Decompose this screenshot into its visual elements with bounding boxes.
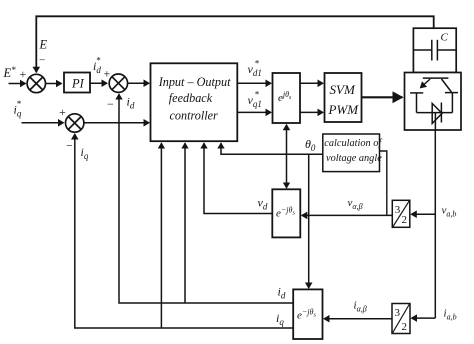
svg-text:+: + xyxy=(20,67,27,81)
svg-text:+: + xyxy=(59,105,66,119)
wire v32 to e-jt voltage xyxy=(302,214,393,216)
wire vab branch to angle calculation xyxy=(380,151,387,215)
svg-text:Input – Output: Input – Output xyxy=(158,75,231,89)
svg-text:−: − xyxy=(39,55,45,67)
wire theta down to e-jt voltage xyxy=(286,154,288,188)
transistor Q2 (right switch) xyxy=(442,79,459,113)
block 3/2 current xyxy=(392,304,410,334)
wire converter bottom rail xyxy=(417,112,453,114)
summer S3 xyxy=(66,114,84,132)
wire E feedback from DC-link top to summer S1 xyxy=(36,16,433,72)
wire id to controller xyxy=(184,143,186,303)
wire converter output down to measurement taps xyxy=(434,130,436,318)
wire id feedback xyxy=(119,94,293,303)
transistor Q1 (left switch) xyxy=(410,79,430,113)
wire iab tap to 3/2 xyxy=(412,317,436,319)
svg-text:2: 2 xyxy=(402,214,408,226)
block 3/2 voltage xyxy=(392,200,410,227)
block e^-jts voltage rotation xyxy=(272,189,300,237)
wire ejt to SVM (top) xyxy=(300,82,323,84)
svg-text:iq*: iq* xyxy=(14,99,22,119)
block SVM PWM xyxy=(325,73,362,122)
capacitor C1 (plates and leads) xyxy=(413,40,456,61)
wire E* input xyxy=(9,83,26,85)
block e^jts rotation xyxy=(273,73,301,123)
wire i32 to e-jt current xyxy=(324,318,392,320)
wire SVM to converter (thick) xyxy=(362,96,403,98)
summer S1 xyxy=(27,74,45,92)
svg-text:2: 2 xyxy=(402,321,408,333)
DC-link capacitor block box xyxy=(413,28,456,72)
svg-text:calculation of: calculation of xyxy=(324,138,383,149)
block PI xyxy=(64,73,90,93)
svg-text:3: 3 xyxy=(395,204,401,216)
wire controller to ejt (vd1) xyxy=(237,82,271,84)
wire S3 to controller xyxy=(84,122,149,124)
block Input-Output feedback controller xyxy=(151,63,238,141)
svg-text:PI: PI xyxy=(71,77,85,91)
wire converter output stub xyxy=(434,113,436,130)
svg-text:feedback: feedback xyxy=(169,91,213,105)
svg-text:+: + xyxy=(104,67,111,81)
wire PI to S2 xyxy=(90,82,107,84)
svg-text:C: C xyxy=(441,32,449,44)
PWM converter block box xyxy=(405,73,462,131)
wire vab tap to 3/2 xyxy=(411,213,435,215)
wire controller to ejt (vq1) xyxy=(237,111,271,113)
wire theta up to ejt xyxy=(286,125,288,155)
svg-text:controller: controller xyxy=(170,109,219,123)
diode D1 xyxy=(432,103,442,124)
wire iq* input xyxy=(22,122,64,124)
wire ejt to SVM (bottom) xyxy=(300,111,323,113)
summer S2 xyxy=(109,74,127,92)
wire theta to controller xyxy=(221,143,323,154)
svg-text:voltage angle: voltage angle xyxy=(326,153,382,164)
wire theta down to e-jt current xyxy=(308,154,310,288)
block e^-jts current rotation xyxy=(293,289,322,339)
wire S1 to PI xyxy=(46,83,62,85)
wire vd to controller xyxy=(204,143,272,213)
svg-text:SVM: SVM xyxy=(330,82,356,97)
wire iq feedback xyxy=(75,134,293,328)
svg-text:id*: id* xyxy=(93,56,101,76)
svg-text:−: − xyxy=(107,97,114,111)
wire S2 to controller xyxy=(128,82,149,84)
wire iq to controller xyxy=(160,143,162,328)
svg-text:PWM: PWM xyxy=(328,102,360,117)
converter DC bus bar xyxy=(423,77,449,79)
svg-text:−: − xyxy=(66,139,73,153)
block calculation of voltage angle xyxy=(323,134,384,172)
svg-text:3: 3 xyxy=(395,307,401,319)
svg-text:E: E xyxy=(39,38,48,52)
